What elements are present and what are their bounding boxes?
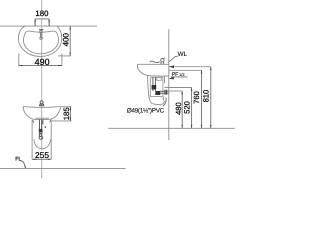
PF arrow at wall [169, 77, 174, 80]
dim connector 520 [165, 87, 192, 89]
svg-text:760: 760 [192, 91, 201, 104]
dimension 490 left extension [18, 54, 20, 67]
front faucet body [40, 104, 44, 106]
dimension 185 bottom extension [52, 120, 72, 122]
dim 760 arrows [201, 70, 202, 128]
dimension 255 arrows [32, 159, 51, 160]
centerline (plan/front views) [41, 0, 43, 178]
svg-text:180: 180 [35, 9, 49, 18]
front trap nut 1 [39, 129, 43, 132]
dimension 180 line [35, 18, 49, 20]
side drain pipe to wall [160, 91, 169, 93]
dim line 520 [191, 88, 193, 129]
dim connector 760 [169, 69, 202, 71]
svg-text:255: 255 [35, 150, 49, 160]
front bowl bottom line [35, 117, 48, 119]
dimension 185 arrows [70, 107, 71, 121]
svg-text:400: 400 [61, 32, 70, 46]
svg-text:Ø49(1½")PVC: Ø49(1½")PVC [127, 107, 165, 114]
WL label [178, 51, 188, 58]
front pedestal left side [31, 120, 33, 160]
front drain outlet ellipse [39, 136, 43, 139]
front rod pivot block [45, 126, 46, 127]
dimension 185 text [62, 107, 71, 121]
svg-text:520: 520 [182, 101, 191, 114]
svg-text:810: 810 [202, 90, 211, 103]
side faucet handle circle [161, 59, 164, 62]
dim 480 arrows [182, 91, 183, 128]
svg-text:WL: WL [178, 51, 188, 58]
dim connector 480 [169, 90, 182, 92]
PF 1/2 label [172, 72, 186, 78]
wall line (side view) [168, 29, 170, 140]
FL label [15, 157, 21, 163]
plan faucet stem [40, 33, 41, 37]
wall line (plan view) [0, 25, 97, 27]
side basin deck [137, 63, 168, 65]
svg-text:1/2: 1/2 [179, 72, 185, 77]
front pedestal right side [50, 119, 52, 160]
dimension 490 line [19, 65, 62, 67]
front basin rim [23, 106, 61, 109]
dimension 185 top extension [61, 106, 72, 108]
side basin front edge and underside [137, 64, 168, 76]
dim 520 text [182, 101, 191, 114]
dimension 400 arrows [70, 26, 71, 56]
svg-text:185: 185 [62, 107, 71, 121]
basin inner bowl (plan view) [23, 31, 58, 54]
front trap nut 2 [39, 133, 43, 135]
plan drain circle [40, 37, 43, 39]
side faucet spout [150, 61, 160, 63]
floor line (side view) [108, 127, 235, 129]
front faucet knob [40, 101, 43, 104]
dimension 255 line [32, 158, 51, 160]
plan faucet circle [39, 29, 44, 31]
side trap box [150, 77, 163, 96]
supply arrow at wall (810) [169, 65, 174, 68]
dim line 760 [201, 70, 203, 128]
side trap nut 1 [152, 85, 157, 89]
dimension 490 right extension [61, 54, 63, 67]
front trap tailpiece [39, 120, 41, 137]
dimension 180 text [35, 9, 49, 18]
dimension 180 left arrow / faucet hole [34, 19, 36, 26]
side faucet stem [161, 62, 164, 65]
dim line 480 [181, 91, 183, 128]
svg-text:490: 490 [35, 57, 50, 67]
dim 760 text [192, 91, 201, 104]
PF underline leader [171, 76, 188, 78]
svg-text:FL: FL [15, 157, 21, 163]
dim 810 arrows [210, 67, 211, 129]
basin outer outline (plan view) [18, 26, 61, 56]
dimension 180 right arrow / faucet hole [48, 19, 50, 26]
dimension 185 line [69, 107, 71, 121]
dimension 400 bottom extension [58, 55, 71, 57]
dimension 490 arrows [19, 65, 62, 66]
dim 480 text [174, 102, 183, 115]
dimension 400 text [61, 32, 70, 46]
PVC label leader [163, 98, 166, 107]
dim connector 810 / WL line [169, 66, 211, 68]
dimension 400 line [69, 26, 71, 56]
dim 520 arrows [191, 88, 192, 129]
pedestal top corner ticks [32, 120, 51, 123]
FL leader [20, 160, 25, 168]
dimension 490 text [35, 57, 50, 67]
front basin bowl underside [23, 107, 61, 120]
dim line 810 [210, 67, 212, 129]
front pedestal inner U curve [34, 139, 51, 148]
WL leader [169, 56, 178, 62]
side pedestal outline [148, 76, 166, 105]
PVC label [127, 107, 165, 114]
floor line (front view) [0, 168, 126, 170]
side tailpiece [153, 77, 156, 91]
dimension 255 text [35, 150, 49, 160]
dim 810 text [202, 90, 211, 103]
side trap elbow dark [155, 91, 160, 95]
front pop-up rod [42, 120, 44, 125]
side wall flange ticks [165, 90, 167, 95]
